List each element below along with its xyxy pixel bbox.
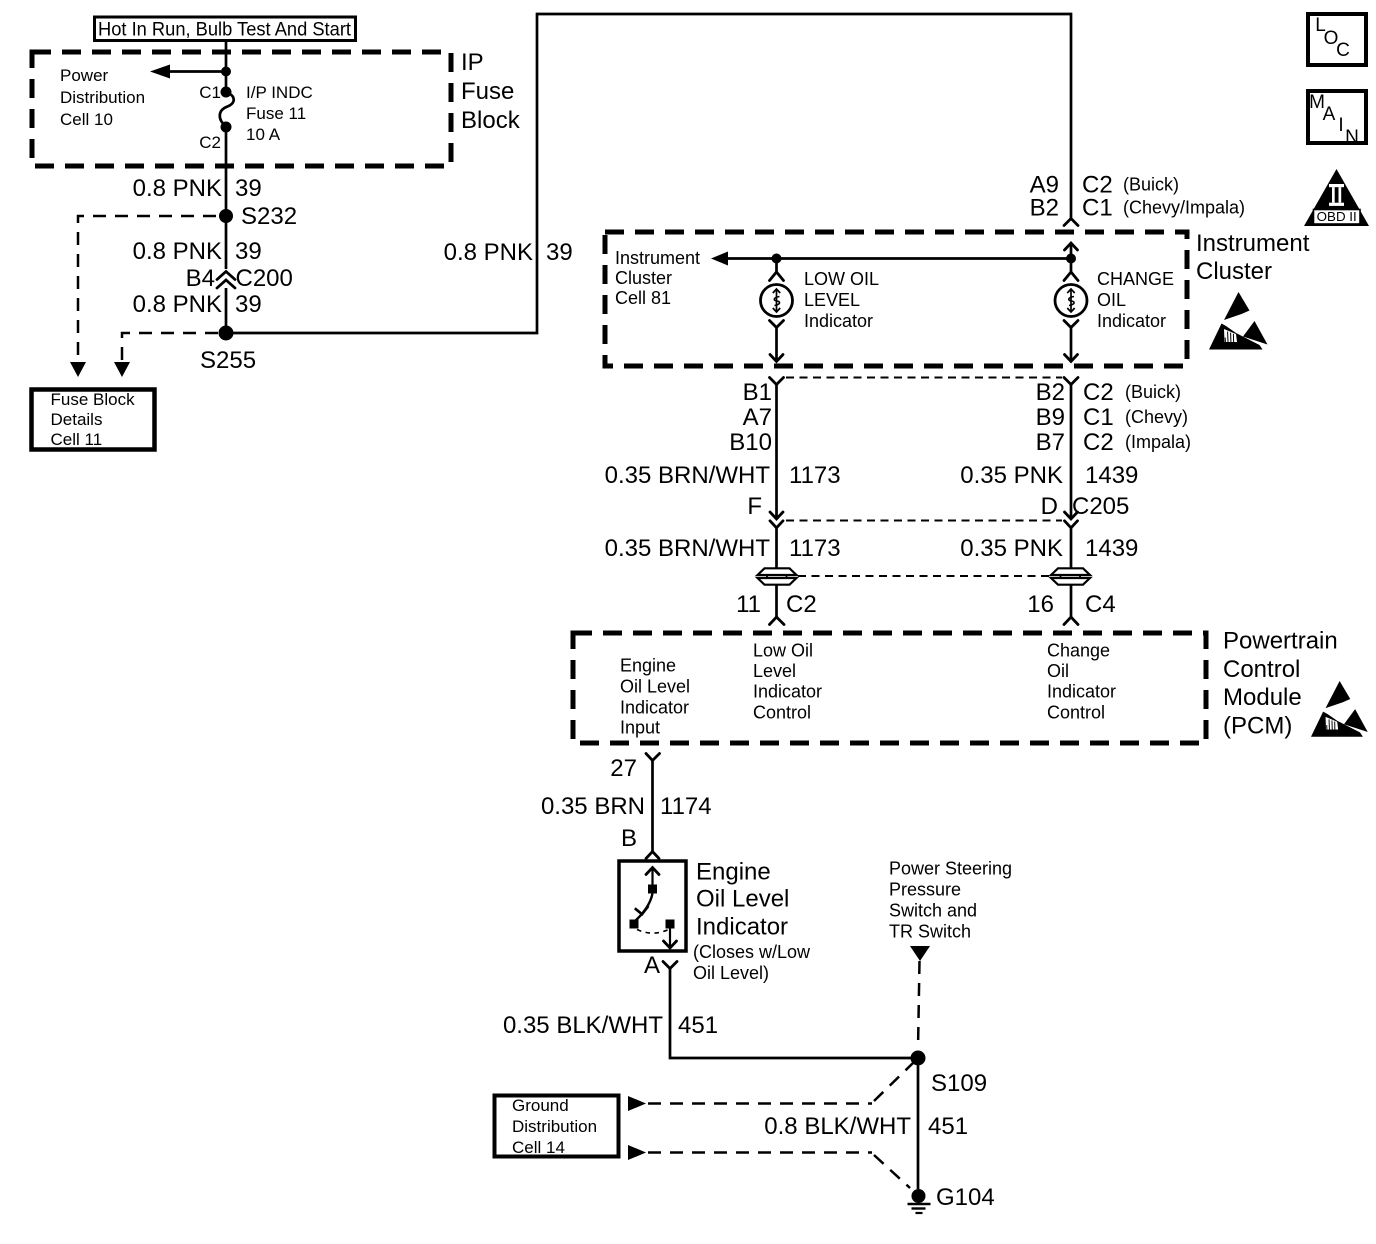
svg-text:1439: 1439 [1085, 535, 1138, 562]
dashed reference wire S255 to fuse block details [122, 333, 218, 360]
connector at cluster entry [1064, 219, 1078, 226]
dashed reference: upper arrow to S109 [628, 1063, 913, 1111]
C205 pin F [747, 493, 783, 528]
svg-text:Oil Level: Oil Level [620, 677, 690, 697]
dashed reference: lower arrow to G104 [628, 1145, 910, 1188]
dashed wire power steering to S109 [918, 961, 920, 1049]
ESD symbol (PCM) [1311, 681, 1368, 737]
svg-text:C205: C205 [1072, 493, 1129, 520]
svg-text:C2: C2 [1083, 379, 1114, 406]
svg-text:Pressure: Pressure [889, 880, 961, 900]
svg-text:Hot In Run, Bulb Test And Star: Hot In Run, Bulb Test And Start [98, 19, 352, 41]
arrowhead down [70, 362, 86, 377]
svg-text:(Buick): (Buick) [1125, 382, 1181, 402]
wire: grommet to PCM pin 16 [1070, 585, 1073, 617]
PCM dashed box [573, 633, 1206, 743]
svg-text:B2: B2 [1036, 379, 1065, 406]
svg-text:C: C [1336, 40, 1350, 61]
fuse block details box [32, 390, 155, 450]
ground G104 [908, 1184, 995, 1213]
svg-text:0.8 PNK: 0.8 PNK [133, 291, 222, 318]
svg-text:D: D [1041, 493, 1058, 520]
pass-through grommet pair dashed link [798, 575, 1049, 577]
svg-text:I/P INDC: I/P INDC [246, 83, 313, 102]
svg-text:B7: B7 [1036, 429, 1065, 456]
connector C205 (thin dashed pair) [786, 520, 1062, 522]
CHANGE OIL indicator lamp branch [1055, 259, 1087, 362]
grommet left [758, 568, 797, 584]
svg-text:TR Switch: TR Switch [889, 922, 971, 942]
svg-text:(Closes w/Low: (Closes w/Low [693, 942, 811, 962]
LOC legend box [1308, 14, 1366, 65]
svg-text:C2: C2 [199, 133, 221, 152]
wire: grommet to PCM pin 11 [775, 585, 778, 617]
svg-text:S109: S109 [931, 1070, 987, 1097]
svg-text:0.8 PNK: 0.8 PNK [444, 239, 533, 266]
ESD symbol (instrument cluster) [1209, 292, 1268, 350]
svg-text:10 A: 10 A [246, 125, 281, 144]
svg-text:Level: Level [753, 661, 796, 681]
svg-text:OBD II: OBD II [1317, 210, 1357, 224]
wire: B1 to C205-F [775, 385, 778, 520]
svg-text:0.35 PNK: 0.35 PNK [960, 535, 1063, 562]
svg-text:Control: Control [1047, 703, 1105, 723]
node on arrow wire (right branch) [1066, 254, 1076, 264]
PCM pin 27 connector [610, 754, 659, 783]
svg-text:0.35 BLK/WHT: 0.35 BLK/WHT [503, 1012, 663, 1039]
svg-text:S232: S232 [241, 203, 297, 230]
svg-text:C1: C1 [199, 83, 221, 102]
C205 pin D [1041, 493, 1130, 528]
arrowhead down [114, 362, 130, 377]
MAIN legend box [1308, 91, 1366, 148]
svg-text:Cell 81: Cell 81 [615, 288, 671, 308]
svg-text:B9: B9 [1036, 404, 1065, 431]
arrowhead down from power steering [910, 946, 930, 961]
connector terminal left (B1) [770, 378, 784, 385]
svg-text:C200: C200 [236, 265, 293, 292]
wire: PCM 27 to switch B [651, 761, 654, 852]
svg-text:Oil Level): Oil Level) [693, 963, 769, 983]
node S109 [911, 1051, 926, 1066]
wire: S255 right, up, across top, down to instrument cluster [226, 14, 1071, 333]
IP fuse block dashed box [32, 52, 451, 166]
svg-text:C4: C4 [1085, 591, 1116, 618]
dashed reference wire S232 to fuse block details [78, 216, 216, 360]
wire: C205-D to splice [1070, 528, 1073, 568]
svg-text:Instrument: Instrument [615, 248, 700, 268]
svg-text:IP: IP [461, 49, 484, 76]
svg-text:1439: 1439 [1085, 462, 1138, 489]
banner box: Hot In Run, Bulb Test And Start [95, 17, 356, 41]
wire: S232 to C200 [225, 216, 228, 269]
arrow to power distribution [150, 65, 226, 79]
node C1 [221, 87, 232, 98]
wire: fuse C2 to S232 [225, 127, 228, 216]
PCM pin 16 C4 connector [1027, 591, 1115, 625]
svg-text:Power Steering: Power Steering [889, 859, 1012, 879]
svg-text:B4: B4 [186, 265, 215, 292]
svg-text:Change: Change [1047, 641, 1110, 661]
svg-text:(Buick): (Buick) [1123, 175, 1179, 195]
svg-text:Distribution: Distribution [60, 88, 145, 107]
svg-text:0.8 BLK/WHT: 0.8 BLK/WHT [764, 1113, 911, 1140]
svg-text:Power: Power [60, 66, 109, 85]
svg-text:Indicator: Indicator [804, 311, 873, 331]
svg-text:Distribution: Distribution [512, 1117, 597, 1136]
instrument cluster dashed box [605, 232, 1187, 366]
node on arrow wire (left branch) [772, 254, 782, 264]
svg-text:(Impala): (Impala) [1125, 432, 1191, 452]
svg-text:Cell 14: Cell 14 [512, 1138, 565, 1157]
svg-text:451: 451 [678, 1012, 718, 1039]
svg-text:451: 451 [928, 1113, 968, 1140]
svg-text:Fuse: Fuse [461, 78, 514, 105]
PCM pin 11 C2 connector [736, 591, 817, 625]
svg-text:Ground: Ground [512, 1096, 569, 1115]
svg-text:Details: Details [51, 410, 103, 429]
fuse F11 element [220, 93, 234, 127]
svg-text:F: F [747, 493, 762, 520]
svg-text:LOW OIL: LOW OIL [804, 269, 879, 289]
svg-text:Fuse Block: Fuse Block [51, 390, 136, 409]
svg-text:Cell 10: Cell 10 [60, 110, 113, 129]
svg-text:39: 39 [235, 238, 262, 265]
svg-text:Oil: Oil [1047, 661, 1069, 681]
svg-text:S255: S255 [200, 347, 256, 374]
connector pair below cluster (thin dashed) [786, 377, 1062, 379]
svg-text:N: N [1345, 127, 1359, 148]
wire: banner to fuse C1 [225, 40, 228, 92]
node S232 [219, 209, 233, 223]
svg-text:Cell 11: Cell 11 [51, 430, 103, 449]
LOW OIL LEVEL indicator lamp branch [761, 259, 793, 362]
arrow up into cluster [1065, 243, 1078, 258]
wire: A to S109 [670, 969, 918, 1059]
connector terminal right (B2) [1064, 378, 1078, 385]
svg-text:39: 39 [235, 175, 262, 202]
svg-text:Engine: Engine [620, 656, 676, 676]
svg-text:A: A [1323, 104, 1336, 125]
svg-text:C1: C1 [1083, 404, 1114, 431]
svg-text:LEVEL: LEVEL [804, 290, 860, 310]
svg-text:1173: 1173 [789, 535, 841, 562]
svg-text:Block: Block [461, 107, 521, 134]
svg-text:0.8 PNK: 0.8 PNK [133, 175, 222, 202]
svg-text:Low Oil: Low Oil [753, 641, 813, 661]
svg-text:Control: Control [1223, 656, 1300, 683]
svg-text:39: 39 [235, 291, 262, 318]
svg-text:Indicator: Indicator [696, 914, 788, 941]
svg-text:(Chevy/Impala): (Chevy/Impala) [1123, 198, 1245, 218]
svg-text:0.8 PNK: 0.8 PNK [133, 238, 222, 265]
svg-text:0.35 BRN/WHT: 0.35 BRN/WHT [605, 535, 771, 562]
svg-text:11: 11 [736, 591, 761, 618]
svg-text:C1: C1 [1082, 195, 1113, 222]
switch pin B connector [621, 825, 659, 859]
svg-text:CHANGE: CHANGE [1097, 269, 1174, 289]
svg-text:Indicator: Indicator [1047, 682, 1116, 702]
node at arrow junction [221, 67, 231, 77]
svg-text:(PCM): (PCM) [1223, 713, 1292, 740]
svg-text:Engine: Engine [696, 859, 771, 886]
svg-text:OIL: OIL [1097, 290, 1126, 310]
switch internals [630, 868, 677, 949]
svg-text:Indicator: Indicator [620, 698, 689, 718]
svg-text:Switch and: Switch and [889, 901, 977, 921]
grommet right [1051, 568, 1090, 584]
node C2 [221, 122, 232, 133]
svg-text:Indicator: Indicator [753, 682, 822, 702]
switch pin A connector [644, 952, 677, 979]
svg-text:Control: Control [753, 703, 811, 723]
svg-text:B10: B10 [729, 429, 772, 456]
engine oil level indicator switch box [619, 861, 686, 951]
svg-text:C2: C2 [786, 591, 817, 618]
svg-text:0.35 PNK: 0.35 PNK [960, 462, 1063, 489]
node S255 [219, 326, 234, 341]
svg-text:Cluster: Cluster [615, 268, 672, 288]
svg-text:C2: C2 [1083, 429, 1114, 456]
svg-text:27: 27 [610, 755, 637, 782]
svg-text:16: 16 [1027, 591, 1054, 618]
svg-text:Input: Input [620, 718, 660, 738]
svg-text:Fuse 11: Fuse 11 [246, 104, 306, 123]
connector C200 pin B4 [186, 265, 293, 292]
svg-text:A7: A7 [743, 404, 772, 431]
svg-text:Module: Module [1223, 684, 1302, 711]
wire: B2 to C205-D [1070, 385, 1073, 520]
ground distribution box [495, 1096, 619, 1158]
internal arrow wire to cluster cell [711, 252, 1071, 266]
svg-text:1174: 1174 [660, 793, 712, 820]
svg-text:Cluster: Cluster [1196, 258, 1272, 285]
svg-text:Indicator: Indicator [1097, 311, 1166, 331]
svg-text:0.35 BRN/WHT: 0.35 BRN/WHT [605, 462, 771, 489]
svg-text:Oil Level: Oil Level [696, 886, 789, 913]
wire: C200 to S255 [225, 288, 228, 333]
svg-text:B1: B1 [743, 379, 772, 406]
svg-text:I: I [1338, 115, 1343, 136]
wire: C205-F to splice [775, 528, 778, 568]
svg-text:Powertrain: Powertrain [1223, 628, 1338, 655]
svg-text:G104: G104 [936, 1184, 995, 1211]
OBD II symbol [1304, 169, 1369, 226]
wire: S109 to G104 [917, 1058, 920, 1189]
svg-text:39: 39 [546, 239, 573, 266]
svg-text:0.35 BRN: 0.35 BRN [541, 793, 645, 820]
svg-text:1173: 1173 [789, 462, 841, 489]
svg-text:B2: B2 [1030, 195, 1059, 222]
svg-text:A: A [644, 952, 660, 979]
svg-text:B: B [621, 825, 637, 852]
svg-text:(Chevy): (Chevy) [1125, 407, 1188, 427]
svg-text:Instrument: Instrument [1196, 230, 1310, 257]
